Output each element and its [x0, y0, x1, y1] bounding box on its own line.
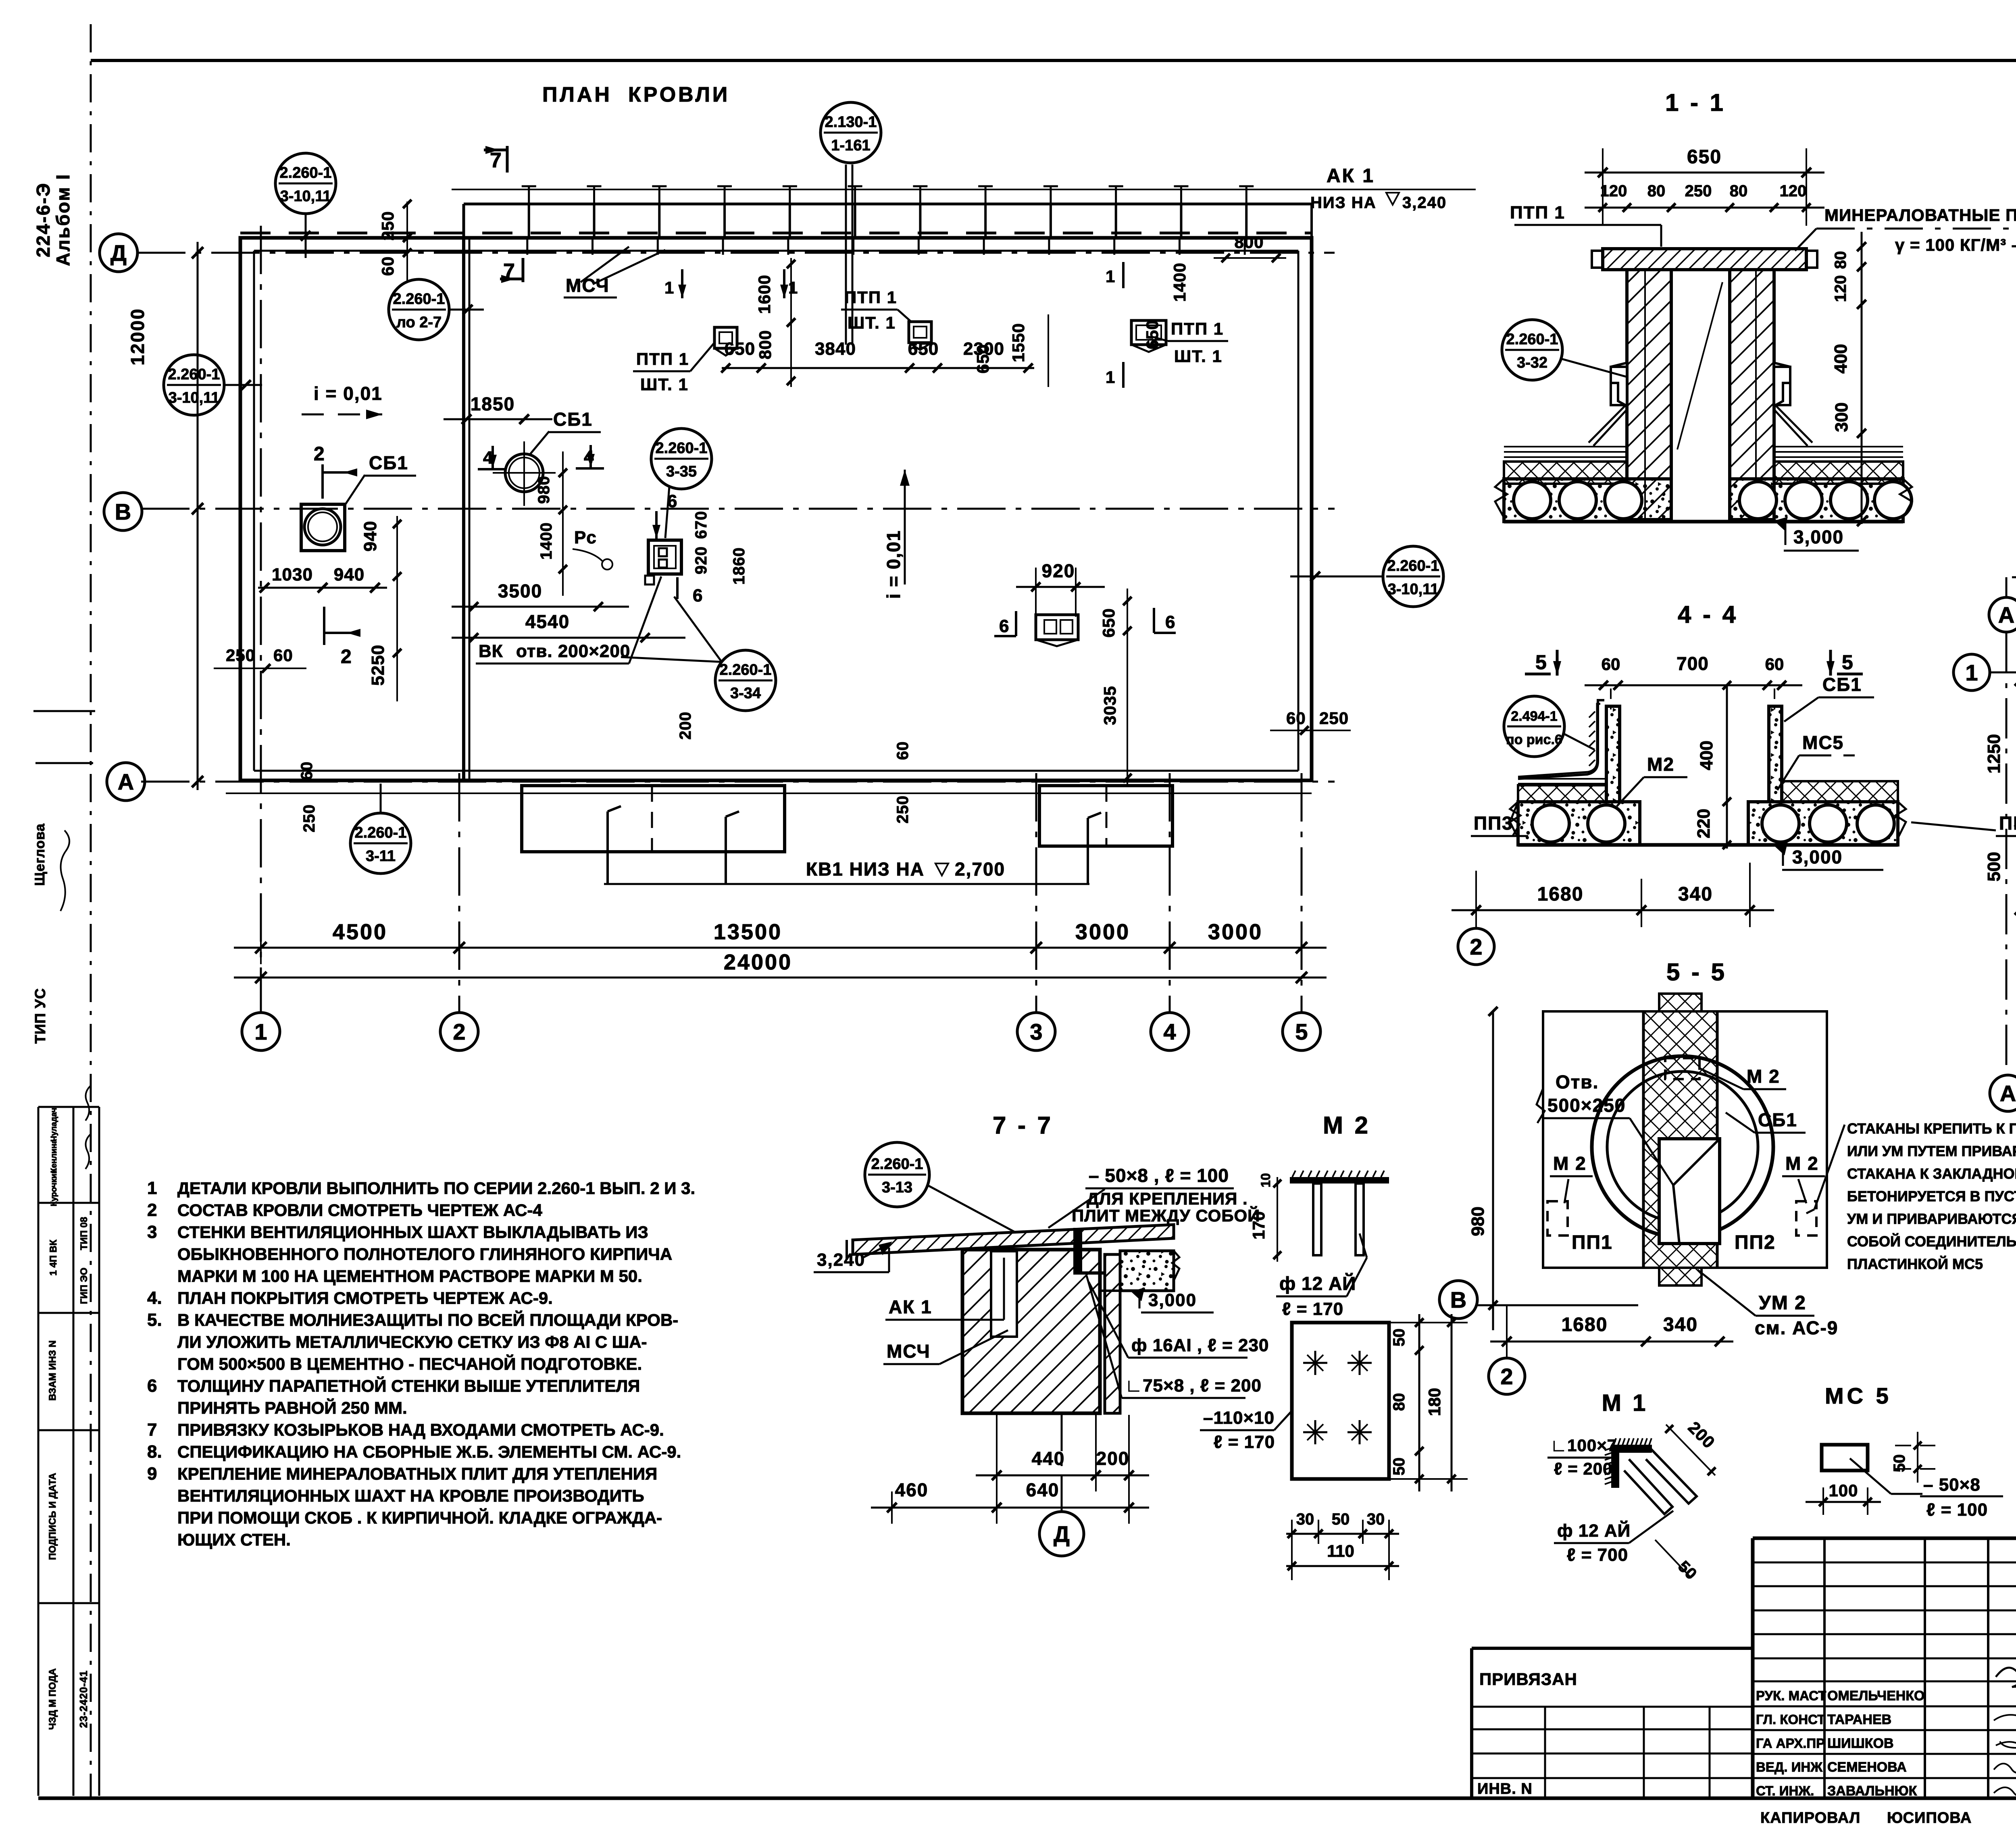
- svg-text:СТАКАНА К ЗАКЛАДНОЙ М2 , КО: СТАКАНА К ЗАКЛАДНОЙ М2 , КОТОРАЯ: [1847, 1165, 2016, 1182]
- svg-text:см. АС-9: см. АС-9: [1755, 1317, 1838, 1338]
- svg-text:2.260-1: 2.260-1: [355, 824, 407, 841]
- svg-text:В: В: [1450, 1287, 1466, 1312]
- svg-text:ГИП ЭО: ГИП ЭО: [79, 1268, 90, 1304]
- svg-text:80: 80: [1390, 1393, 1408, 1411]
- svg-text:3-13: 3-13: [882, 1179, 912, 1196]
- svg-text:М2: М2: [1647, 754, 1674, 775]
- svg-text:АК 1: АК 1: [1327, 165, 1375, 187]
- svg-text:ф 16АI , ℓ = 230: ф 16АI , ℓ = 230: [1131, 1335, 1269, 1355]
- svg-text:М 2: М 2: [1323, 1112, 1370, 1139]
- svg-text:2.494-1: 2.494-1: [1511, 709, 1557, 724]
- svg-text:200: 200: [1096, 1448, 1130, 1469]
- svg-text:2.260-1: 2.260-1: [871, 1156, 923, 1173]
- svg-text:80: 80: [1730, 182, 1748, 200]
- svg-text:980: 980: [1468, 1206, 1488, 1236]
- svg-text:250: 250: [1685, 182, 1712, 200]
- svg-text:400: 400: [1697, 740, 1716, 770]
- svg-text:23-2420-41: 23-2420-41: [77, 1670, 90, 1728]
- svg-text:3-10,11: 3-10,11: [280, 188, 331, 205]
- svg-text:3-10,11: 3-10,11: [1388, 581, 1439, 598]
- svg-text:А: А: [118, 769, 134, 795]
- svg-text:1850: 1850: [471, 393, 515, 414]
- svg-text:8.: 8.: [147, 1442, 162, 1462]
- svg-text:200: 200: [677, 711, 694, 740]
- svg-text:ИНВ. N: ИНВ. N: [1477, 1780, 1533, 1797]
- svg-text:2300: 2300: [963, 339, 1004, 359]
- svg-text:3500: 3500: [498, 580, 542, 601]
- svg-text:1030: 1030: [272, 565, 313, 584]
- svg-text:24000: 24000: [724, 950, 792, 974]
- svg-text:2.260-1: 2.260-1: [720, 661, 772, 678]
- svg-text:ШТ. 1: ШТ. 1: [1174, 347, 1223, 366]
- svg-text:1250: 1250: [1984, 734, 2004, 774]
- svg-text:1400: 1400: [537, 522, 555, 560]
- svg-text:ИЛИ УМ ПУТЕМ ПРИВАРКИ ЗАКЛА: ИЛИ УМ ПУТЕМ ПРИВАРКИ ЗАКЛАДНОЙ: [1847, 1142, 2016, 1159]
- svg-text:940: 940: [360, 521, 380, 551]
- svg-text:А: А: [1998, 602, 2014, 628]
- svg-text:В КАЧЕСТВЕ МОЛНИЕЗАЩИТЫ ПО: В КАЧЕСТВЕ МОЛНИЕЗАЩИТЫ ПО ВСЕЙ ПЛОЩАДИ …: [177, 1310, 678, 1329]
- svg-text:3,000: 3,000: [1148, 1290, 1197, 1310]
- svg-text:ЮСИПОВА: ЮСИПОВА: [1887, 1810, 1972, 1826]
- svg-text:300: 300: [1832, 402, 1851, 432]
- svg-text:5: 5: [1295, 1019, 1308, 1044]
- svg-text:ЧЗД М ПОДА: ЧЗД М ПОДА: [47, 1668, 58, 1730]
- svg-text:2,700: 2,700: [955, 859, 1005, 880]
- svg-text:СБ1: СБ1: [1822, 674, 1862, 695]
- svg-text:СОСТАВ КРОВЛИ СМОТРЕТЬ ЧЕРТ: СОСТАВ КРОВЛИ СМОТРЕТЬ ЧЕРТЕЖ АС-4: [177, 1201, 542, 1220]
- svg-text:3840: 3840: [815, 339, 856, 359]
- svg-text:Рс: Рс: [574, 528, 597, 547]
- svg-text:980: 980: [535, 476, 553, 504]
- svg-text:ЮЩИХ СТЕН.: ЮЩИХ СТЕН.: [177, 1530, 291, 1549]
- svg-text:3,240: 3,240: [817, 1250, 865, 1270]
- svg-text:940: 940: [334, 565, 364, 584]
- svg-text:СБ1: СБ1: [553, 409, 593, 430]
- svg-text:440: 440: [1032, 1448, 1065, 1469]
- svg-text:7 - 7: 7 - 7: [993, 1112, 1053, 1139]
- svg-text:Курочкин: Курочкин: [50, 1169, 58, 1206]
- svg-text:ПТП 1: ПТП 1: [1510, 203, 1565, 223]
- svg-text:5: 5: [1535, 651, 1547, 674]
- svg-text:250: 250: [378, 211, 397, 240]
- svg-text:3000: 3000: [1075, 920, 1130, 944]
- svg-text:60: 60: [378, 256, 397, 276]
- svg-text:30: 30: [1296, 1510, 1314, 1528]
- svg-text:ДЛЯ КРЕПЛЕНИЯ .: ДЛЯ КРЕПЛЕНИЯ .: [1087, 1189, 1248, 1208]
- svg-text:γ = 100 КГ/М³ – 80 ММ: γ = 100 КГ/М³ – 80 ММ: [1895, 235, 2016, 254]
- svg-text:2.260-1: 2.260-1: [280, 164, 332, 181]
- svg-text:КАПИРОВАЛ: КАПИРОВАЛ: [1760, 1810, 1860, 1826]
- svg-text:5250: 5250: [368, 645, 388, 686]
- svg-text:220: 220: [1694, 809, 1714, 838]
- svg-text:Д: Д: [1054, 1521, 1070, 1547]
- svg-text:Альбом I: Альбом I: [52, 173, 73, 266]
- svg-text:2: 2: [314, 443, 325, 465]
- svg-text:ПРИНЯТЬ РАВНОЙ 250 ММ.: ПРИНЯТЬ РАВНОЙ 250 ММ.: [177, 1398, 407, 1417]
- svg-text:ПЛАН ПОКРЫТИЯ СМОТРЕТЬ ЧЕРТ: ПЛАН ПОКРЫТИЯ СМОТРЕТЬ ЧЕРТЕЖ АС-9.: [177, 1289, 553, 1308]
- svg-text:100: 100: [1829, 1481, 1858, 1500]
- svg-text:2.260-1: 2.260-1: [1506, 331, 1558, 348]
- svg-text:ОБЫКНОВЕННОГО ПОЛНОТЕЛОГО ГЛ: ОБЫКНОВЕННОГО ПОЛНОТЕЛОГО ГЛИНЯНОГО КИРП…: [177, 1245, 672, 1264]
- svg-text:ф 12 АЙ: ф 12 АЙ: [1557, 1520, 1631, 1541]
- svg-text:ло 2-7: ло 2-7: [396, 314, 442, 331]
- svg-text:i = 0,01: i = 0,01: [883, 530, 904, 599]
- svg-text:ТИП УС: ТИП УС: [32, 988, 48, 1044]
- svg-text:920: 920: [1042, 560, 1075, 581]
- svg-text:ТИП 08: ТИП 08: [79, 1217, 90, 1250]
- svg-text:340: 340: [1663, 1314, 1698, 1335]
- svg-text:460: 460: [895, 1479, 929, 1500]
- svg-text:1680: 1680: [1537, 884, 1584, 905]
- svg-text:ШТ. 1: ШТ. 1: [640, 375, 689, 394]
- svg-text:50: 50: [1332, 1510, 1350, 1528]
- svg-text:ПЛИТ МЕЖДУ СОБОЙ: ПЛИТ МЕЖДУ СОБОЙ: [1072, 1206, 1260, 1225]
- svg-text:5.: 5.: [147, 1310, 162, 1330]
- svg-text:500: 500: [1984, 852, 2004, 881]
- svg-text:ВЕНТИЛЯЦИОННЫХ ШАХТ НА КРОВ: ВЕНТИЛЯЦИОННЫХ ШАХТ НА КРОВЛЕ ПРОИЗВОДИТ…: [177, 1486, 644, 1505]
- svg-text:7: 7: [147, 1420, 157, 1440]
- svg-text:ТОЛЩИНУ ПАРАПЕТНОЙ СТЕНКИ В: ТОЛЩИНУ ПАРАПЕТНОЙ СТЕНКИ ВЫШЕ УТЕПЛИТЕЛ…: [177, 1376, 640, 1396]
- svg-text:650: 650: [1099, 608, 1118, 637]
- svg-text:ПП1: ПП1: [1572, 1232, 1613, 1253]
- svg-text:2.260-1: 2.260-1: [656, 440, 708, 457]
- svg-text:4: 4: [1163, 1019, 1176, 1044]
- svg-text:i = 0,01: i = 0,01: [314, 383, 383, 404]
- svg-text:340: 340: [1678, 884, 1713, 905]
- svg-text:6: 6: [147, 1376, 157, 1396]
- svg-text:АК 1: АК 1: [889, 1296, 932, 1317]
- svg-text:120: 120: [1600, 182, 1627, 200]
- svg-text:М 2: М 2: [1785, 1153, 1819, 1174]
- svg-text:13500: 13500: [714, 920, 782, 944]
- svg-text:ПТП 1: ПТП 1: [844, 288, 897, 307]
- svg-text:250: 250: [1319, 709, 1349, 728]
- svg-text:Д: Д: [110, 240, 127, 266]
- svg-text:ВЕД. ИНЖ: ВЕД. ИНЖ: [1756, 1760, 1822, 1774]
- svg-text:КРОВЛИ: КРОВЛИ: [628, 83, 730, 106]
- svg-text:224-6-Э: 224-6-Э: [33, 182, 54, 258]
- svg-text:3-35: 3-35: [666, 463, 697, 480]
- svg-text:М 2: М 2: [1747, 1066, 1780, 1087]
- svg-text:3,240: 3,240: [1402, 194, 1447, 212]
- svg-text:650: 650: [725, 339, 755, 359]
- svg-text:ВЗАМ ИНЗ N: ВЗАМ ИНЗ N: [47, 1340, 58, 1401]
- svg-text:ПП3: ПП3: [1474, 813, 1513, 834]
- svg-text:СТАКАНЫ КРЕПИТЬ К ПАНЕЛЯМ: СТАКАНЫ КРЕПИТЬ К ПАНЕЛЯМ: [1847, 1120, 2016, 1137]
- svg-text:Щеглова: Щеглова: [32, 823, 48, 886]
- svg-text:800: 800: [1234, 233, 1264, 252]
- svg-text:4 - 4: 4 - 4: [1678, 601, 1738, 628]
- svg-text:2.130-1: 2.130-1: [825, 114, 877, 131]
- svg-text:МАРКИ М 100 НА ЦЕМЕНТНОМ Р: МАРКИ М 100 НА ЦЕМЕНТНОМ РАСТВОРЕ МАРКИ …: [177, 1267, 642, 1285]
- svg-text:ПП2: ПП2: [1999, 813, 2016, 834]
- svg-text:50: 50: [1390, 1329, 1408, 1347]
- svg-text:–110×10: –110×10: [1203, 1408, 1275, 1428]
- svg-text:УМ 2: УМ 2: [1759, 1292, 1806, 1314]
- svg-text:ℓ = 170: ℓ = 170: [1282, 1299, 1343, 1319]
- svg-text:1680: 1680: [1562, 1314, 1608, 1335]
- svg-text:6: 6: [667, 491, 677, 511]
- svg-text:2.260-1: 2.260-1: [1387, 557, 1439, 574]
- svg-text:7: 7: [490, 149, 502, 172]
- svg-text:ШИШКОВ: ШИШКОВ: [1827, 1736, 1894, 1751]
- svg-text:ПТП 1: ПТП 1: [636, 349, 689, 368]
- svg-text:700: 700: [1677, 653, 1709, 674]
- svg-text:120: 120: [1832, 275, 1849, 302]
- svg-text:2: 2: [147, 1200, 157, 1220]
- svg-text:СБ1: СБ1: [1758, 1109, 1797, 1130]
- svg-text:50: 50: [1390, 1458, 1408, 1476]
- svg-text:1: 1: [1106, 267, 1115, 286]
- svg-text:– 50×8 , ℓ = 100: – 50×8 , ℓ = 100: [1089, 1165, 1229, 1186]
- svg-text:ЛИ УЛОЖИТЬ МЕТАЛЛИЧЕСКУЮ СЕ: ЛИ УЛОЖИТЬ МЕТАЛЛИЧЕСКУЮ СЕТКУ ИЗ Ф8 АI …: [177, 1333, 647, 1352]
- svg-text:МИНЕРАЛОВАТНЫЕ ПЛИТЫ: МИНЕРАЛОВАТНЫЕ ПЛИТЫ: [1824, 206, 2016, 225]
- svg-text:по рис.6: по рис.6: [1506, 732, 1562, 747]
- svg-text:2: 2: [453, 1019, 465, 1044]
- svg-text:110: 110: [1327, 1541, 1354, 1560]
- svg-text:МС5: МС5: [1802, 732, 1844, 753]
- svg-text:80: 80: [1647, 182, 1666, 200]
- svg-text:ПОДПИСЬ И ДАТА: ПОДПИСЬ И ДАТА: [47, 1473, 58, 1560]
- svg-text:4500: 4500: [333, 920, 387, 944]
- svg-text:ГЛ. КОНСТ: ГЛ. КОНСТ: [1756, 1712, 1825, 1727]
- svg-text:60: 60: [1602, 655, 1620, 674]
- svg-text:120: 120: [1780, 182, 1807, 200]
- svg-text:5 - 5: 5 - 5: [1666, 959, 1727, 986]
- svg-text:2.260-1: 2.260-1: [393, 291, 445, 308]
- svg-text:180: 180: [1425, 1388, 1444, 1416]
- svg-text:А: А: [2000, 1081, 2016, 1106]
- svg-text:ЗАВАЛЬНЮК: ЗАВАЛЬНЮК: [1827, 1783, 1917, 1799]
- svg-text:920: 920: [692, 546, 710, 574]
- svg-text:∟75×8 , ℓ = 200: ∟75×8 , ℓ = 200: [1125, 1376, 1262, 1396]
- svg-text:ℓ = 100: ℓ = 100: [1926, 1500, 1988, 1520]
- svg-text:ПРИВЯЗКУ КОЗЫРЬКОВ НАД ВХОД: ПРИВЯЗКУ КОЗЫРЬКОВ НАД ВХОДАМИ СМОТРЕТЬ …: [177, 1421, 664, 1439]
- svg-text:1400: 1400: [1170, 262, 1189, 302]
- svg-text:ПЛАСТИНКОЙ МС5: ПЛАСТИНКОЙ МС5: [1847, 1255, 1983, 1272]
- svg-text:3,000: 3,000: [1792, 847, 1843, 867]
- svg-text:6: 6: [999, 616, 1009, 636]
- svg-text:∟100×7: ∟100×7: [1550, 1436, 1617, 1455]
- svg-text:60: 60: [273, 646, 293, 665]
- svg-text:6: 6: [1165, 612, 1175, 632]
- svg-text:6: 6: [693, 586, 702, 605]
- svg-text:отв. 200×200: отв. 200×200: [516, 641, 630, 661]
- svg-text:80: 80: [1832, 251, 1849, 269]
- svg-text:СПЕЦИФИКАЦИЮ НА СБОРНЫЕ Ж.Б: СПЕЦИФИКАЦИЮ НА СБОРНЫЕ Ж.Б. ЭЛЕМЕНТЫ СМ…: [177, 1442, 681, 1461]
- svg-text:Отв.: Отв.: [1556, 1071, 1599, 1092]
- svg-text:ПЛАН: ПЛАН: [542, 83, 612, 106]
- svg-text:ПРИВЯЗАН: ПРИВЯЗАН: [1479, 1670, 1577, 1689]
- svg-text:250: 250: [894, 795, 912, 824]
- svg-text:3-34: 3-34: [730, 685, 761, 702]
- svg-text:5: 5: [1842, 651, 1853, 674]
- svg-text:1 - 1: 1 - 1: [1665, 89, 1726, 116]
- svg-text:ℓ = 200: ℓ = 200: [1554, 1459, 1612, 1478]
- svg-text:Кенлина: Кенлина: [50, 1139, 58, 1173]
- svg-text:1: 1: [1965, 660, 1978, 685]
- svg-text:УМ И ПРИВАРИВАЮТСЯ , МЕЖДУ: УМ И ПРИВАРИВАЮТСЯ , МЕЖДУ: [1847, 1211, 2016, 1227]
- svg-text:1550: 1550: [1009, 323, 1028, 362]
- svg-text:ℓ = 700: ℓ = 700: [1567, 1545, 1628, 1565]
- svg-text:МС 5: МС 5: [1825, 1383, 1892, 1408]
- svg-text:НИЗ НА: НИЗ НА: [1310, 194, 1377, 212]
- svg-text:ГОМ 500×500 В ЦЕМЕНТНО - ПЕ: ГОМ 500×500 В ЦЕМЕНТНО - ПЕСЧАНОЙ ПОДГОТ…: [177, 1354, 642, 1373]
- svg-text:СБ1: СБ1: [369, 452, 408, 473]
- svg-text:500×250: 500×250: [1547, 1095, 1626, 1116]
- svg-text:ТАРАНЕВ: ТАРАНЕВ: [1827, 1712, 1891, 1727]
- svg-text:1: 1: [147, 1178, 157, 1198]
- svg-text:12000: 12000: [127, 308, 148, 366]
- svg-text:3-10,11: 3-10,11: [169, 389, 220, 406]
- svg-text:ГА АРХ.ПР: ГА АРХ.ПР: [1756, 1736, 1825, 1751]
- svg-text:ДЕТАЛИ КРОВЛИ ВЫПОЛНИТЬ ПО: ДЕТАЛИ КРОВЛИ ВЫПОЛНИТЬ ПО СЕРИИ 2.260-1…: [177, 1179, 695, 1198]
- svg-text:1 4П ВК: 1 4П ВК: [48, 1240, 59, 1276]
- svg-text:2: 2: [1470, 934, 1482, 959]
- svg-text:ПРИ ПОМОЩИ СКОБ . К КИРПИЧН: ПРИ ПОМОЩИ СКОБ . К КИРПИЧНОЙ. КЛАДКЕ ОГ…: [177, 1508, 662, 1527]
- svg-text:60: 60: [298, 761, 316, 780]
- svg-text:1: 1: [1106, 368, 1115, 387]
- svg-text:КВ1 НИЗ НА: КВ1 НИЗ НА: [806, 859, 925, 880]
- svg-text:4.: 4.: [147, 1288, 162, 1308]
- svg-text:650: 650: [908, 339, 939, 359]
- svg-text:3-11: 3-11: [366, 848, 396, 865]
- svg-text:30: 30: [1367, 1510, 1385, 1528]
- svg-text:1-161: 1-161: [831, 137, 870, 154]
- svg-text:ПТП 1: ПТП 1: [1171, 319, 1224, 338]
- svg-text:ОМЕЛЬЧЕНКО: ОМЕЛЬЧЕНКО: [1827, 1688, 1925, 1703]
- svg-text:3,000: 3,000: [1793, 526, 1844, 547]
- svg-text:400: 400: [1831, 344, 1851, 373]
- svg-text:670: 670: [692, 511, 710, 539]
- svg-text:3035: 3035: [1100, 686, 1119, 725]
- svg-text:В: В: [115, 499, 131, 524]
- svg-text:3000: 3000: [1208, 920, 1263, 944]
- svg-text:СОБОЙ СОЕДИНИТЕЛЬНОЙ: СОБОЙ СОЕДИНИТЕЛЬНОЙ: [1847, 1233, 2016, 1250]
- svg-text:3: 3: [147, 1222, 157, 1242]
- svg-text:ШТ. 1: ШТ. 1: [848, 313, 896, 332]
- svg-text:ℓ = 170: ℓ = 170: [1214, 1432, 1275, 1452]
- svg-text:60: 60: [1286, 709, 1306, 728]
- svg-text:2: 2: [1500, 1364, 1513, 1389]
- svg-text:КРЕПЛЕНИЕ МИНЕРАЛОВАТНЫХ ПЛИ: КРЕПЛЕНИЕ МИНЕРАЛОВАТНЫХ ПЛИТ ДЛЯ УТЕПЛЕ…: [177, 1464, 657, 1483]
- svg-text:М 1: М 1: [1602, 1390, 1648, 1416]
- svg-text:4540: 4540: [525, 611, 570, 632]
- svg-text:ВК: ВК: [479, 641, 503, 661]
- svg-text:170: 170: [1249, 1211, 1268, 1240]
- svg-text:1: 1: [254, 1019, 267, 1044]
- svg-text:3-32: 3-32: [1517, 354, 1547, 371]
- svg-text:2: 2: [341, 646, 352, 668]
- svg-text:– 50×8: – 50×8: [1923, 1475, 1981, 1495]
- svg-text:650: 650: [1687, 146, 1722, 168]
- svg-text:1: 1: [664, 278, 674, 297]
- svg-text:СЕМЕНОВА: СЕМЕНОВА: [1827, 1760, 1907, 1775]
- svg-text:10: 10: [1258, 1173, 1273, 1188]
- svg-text:БЕТОНИРУЕТСЯ В ПУСТОТЫ ПЛИТ: БЕТОНИРУЕТСЯ В ПУСТОТЫ ПЛИТ ИЛИ: [1847, 1188, 2016, 1204]
- svg-text:СТ. ИНЖ.: СТ. ИНЖ.: [1756, 1783, 1814, 1798]
- svg-text:1: 1: [788, 278, 798, 297]
- svg-text:СТЕНКИ ВЕНТИЛЯЦИОННЫХ ШАХТ: СТЕНКИ ВЕНТИЛЯЦИОННЫХ ШАХТ ВЫКЛАДЫВАТЬ И…: [177, 1223, 648, 1242]
- svg-text:60: 60: [894, 741, 912, 760]
- svg-text:2.260-1: 2.260-1: [168, 366, 220, 383]
- svg-text:800: 800: [756, 330, 775, 359]
- svg-text:60: 60: [1765, 655, 1784, 674]
- svg-text:1600: 1600: [755, 275, 774, 314]
- svg-text:РУК. МАСТ: РУК. МАСТ: [1756, 1688, 1826, 1703]
- svg-text:640: 640: [1026, 1479, 1060, 1500]
- svg-text:250: 250: [226, 646, 255, 665]
- svg-text:1860: 1860: [730, 547, 748, 585]
- svg-text:М 2: М 2: [1553, 1153, 1587, 1174]
- svg-text:250: 250: [300, 804, 318, 832]
- svg-text:3: 3: [1030, 1019, 1042, 1044]
- svg-text:МСЧ: МСЧ: [887, 1341, 931, 1362]
- svg-text:ПП2: ПП2: [1735, 1232, 1776, 1253]
- svg-text:Чуладач: Чуладач: [50, 1108, 58, 1142]
- svg-text:9: 9: [147, 1464, 157, 1484]
- svg-text:ф 12 АЙ: ф 12 АЙ: [1279, 1273, 1356, 1294]
